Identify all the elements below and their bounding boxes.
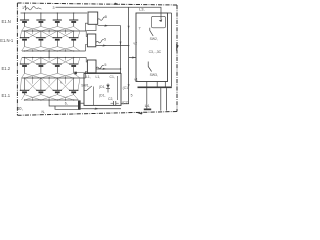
arrowhead down lower	[128, 84, 130, 88]
wire drop A	[160, 88, 162, 111]
wire drop B	[166, 88, 168, 111]
wire mesh row N-1 bottom	[22, 47, 25, 51]
junction	[73, 50, 74, 51]
wire mesh row 1 top	[20, 78, 21, 90]
wire lead cell N.4	[73, 13, 75, 20]
squiggle 5a	[97, 17, 105, 20]
wire mesh row N bottom	[22, 27, 25, 32]
svg-text:(D1,: (D1,	[99, 85, 105, 89]
wire link bus C to bus D1	[48, 51, 50, 58]
junction	[24, 99, 25, 100]
junction	[40, 99, 41, 100]
bus wire D1 (module 2 top)	[22, 57, 86, 59]
svg-text:(D1,: (D1,	[99, 94, 105, 98]
svg-text:5: 5	[131, 94, 133, 98]
wire rail 2	[55, 106, 78, 109]
svg-text:C1,: C1,	[110, 75, 115, 79]
branch into right unit	[129, 57, 136, 59]
battery cell 1.1 plates	[20, 89, 29, 91]
thick bus below right unit	[138, 86, 172, 88]
wire stub bus B to box N	[86, 23, 89, 31]
wire mesh row 2 top	[20, 58, 21, 65]
arrowhead down upper	[128, 26, 130, 30]
svg-text:E1.N-1: E1.N-1	[0, 38, 14, 43]
junction	[24, 30, 25, 31]
wire lead cell N.1	[24, 13, 26, 20]
arrow into inner unit	[159, 19, 162, 22]
wire mesh row 1 bottom	[22, 95, 25, 100]
svg-text:SW1,: SW1,	[81, 83, 89, 87]
svg-text:C3,..,3C: C3,..,3C	[149, 50, 162, 54]
wire stub bus B to box N-1	[86, 31, 87, 37]
bus wire A (module N top)	[21, 12, 88, 14]
battery cell N-1.2 plates	[36, 37, 45, 39]
inner rounded box	[152, 16, 166, 28]
wire out 3	[96, 68, 121, 70]
wire lead cell 1.2 lower	[40, 92, 42, 94]
svg-text:L4,: L4,	[145, 103, 151, 108]
wire lead cell 2.1	[24, 58, 26, 65]
wire lead cell N-1.4	[73, 31, 75, 38]
wire stub bus B under box N	[86, 25, 96, 31]
wire lead cell N.1 lower	[24, 22, 26, 27]
junction	[40, 77, 41, 78]
battery cell 2.1 plates	[20, 63, 29, 65]
svg-text:v1: v1	[134, 77, 138, 81]
arrowhead on rail	[95, 108, 100, 110]
battery cell 2.3 plates	[53, 63, 62, 65]
svg-text:v2: v2	[133, 41, 137, 45]
arrowhead down mid	[120, 42, 122, 46]
dashed boundary box	[17, 3, 177, 115]
svg-text:3: 3	[53, 6, 55, 10]
battery cell N.2 plates	[36, 19, 45, 21]
wire inner vertical	[117, 76, 119, 100]
bus wire E (negative)	[25, 99, 79, 101]
junction	[73, 12, 74, 13]
junction	[24, 57, 25, 58]
junction	[57, 77, 58, 78]
arrowhead on wire out 3	[103, 68, 107, 70]
wire lead cell N-1.4 lower	[73, 40, 75, 47]
junction	[48, 57, 49, 58]
squiggle 5c	[96, 65, 104, 68]
arrow on bottom border	[137, 113, 144, 115]
wire lead cell 1.3	[56, 78, 58, 90]
wire lead cell N-1.3	[56, 31, 58, 38]
wire lead cell 2.2	[40, 58, 42, 65]
SW2 blade	[150, 28, 153, 36]
svg-text:L1,: L1,	[86, 75, 91, 79]
drops box to thick bus	[147, 82, 166, 88]
wire lead cell N.4 lower	[73, 22, 75, 27]
junction	[73, 99, 74, 100]
battery cell 1.4 plates	[69, 89, 78, 91]
capacitor C2 in box	[114, 101, 116, 105]
wire SW1 to box bottom	[92, 87, 94, 106]
svg-text:E1.2: E1.2	[2, 66, 11, 71]
junction block	[74, 72, 77, 75]
svg-text:40,: 40,	[17, 106, 23, 111]
junction	[40, 57, 41, 58]
svg-text:6,: 6,	[65, 101, 68, 105]
monitor box module N	[88, 12, 98, 24]
L4 inductor mark	[144, 109, 151, 111]
battery cell N-1.3 plates	[53, 37, 62, 39]
wire stub bus C to box N-1	[86, 45, 88, 52]
svg-text:E1.1: E1.1	[2, 93, 11, 98]
monitor box module 2	[87, 60, 96, 73]
battery cell 1.3 plates	[53, 89, 62, 91]
top wire to right unit	[56, 7, 162, 19]
wire lead cell 2.4 lower	[73, 66, 75, 73]
diode D1	[106, 84, 110, 93]
battery cell N.3 plates	[53, 19, 62, 21]
svg-text:L3,: L3,	[139, 6, 145, 11]
wire bar to control box	[81, 102, 84, 104]
bottom control box	[84, 74, 121, 106]
svg-text:L1,: L1,	[96, 75, 101, 79]
wire lead cell 1.1	[24, 78, 26, 90]
SW1 blade	[84, 86, 92, 91]
wire stub bus D to box 2	[86, 72, 88, 79]
svg-text:SW3,: SW3,	[150, 73, 158, 77]
arrow on top border	[114, 3, 121, 5]
battery cell N.1 plates	[20, 19, 29, 21]
squiggle 5b	[96, 40, 104, 43]
wire rail 1	[49, 100, 78, 106]
svg-text:SW2,: SW2,	[150, 37, 158, 41]
battery rows (generated)	[20, 12, 87, 100]
arrow on right border	[176, 44, 178, 51]
svg-text:5: 5	[104, 37, 106, 41]
wire lead cell N-1.3 lower	[56, 40, 58, 47]
wire lead cell 1.2	[40, 78, 42, 90]
wire out 2	[96, 45, 129, 47]
junction	[40, 12, 41, 13]
wire lead cell N.3 lower	[56, 22, 58, 27]
svg-text:5: 5	[104, 63, 106, 67]
wire out 1	[121, 7, 129, 104]
wire stub bus D1 to box 2	[86, 58, 87, 63]
SW3 blade	[148, 62, 151, 72]
capacitor C2 leads	[111, 102, 119, 104]
svg-text:N,: N,	[42, 110, 45, 114]
wire lead cell N-1.1	[24, 31, 26, 38]
wire lead cell 1.4	[73, 78, 75, 90]
svg-text:(C1,: (C1,	[123, 86, 129, 90]
battery cell 2.2 plates	[36, 63, 45, 65]
junction	[73, 77, 74, 78]
junction	[24, 50, 25, 51]
battery cell 1.2 plates	[36, 89, 45, 91]
texts	[0, 19, 14, 98]
wire mesh row 2 bottom	[22, 73, 25, 78]
wire lead cell 1.4 lower	[73, 92, 75, 94]
wire lead cell N-1.2	[40, 31, 42, 38]
monitor box module N-1	[87, 34, 95, 47]
wire lead cell N-1.2 lower	[40, 40, 42, 47]
battery cell N.4 plates	[69, 19, 78, 21]
svg-text:C2,: C2,	[108, 97, 113, 101]
battery cell 2.4 plates	[69, 63, 78, 65]
junction	[73, 57, 74, 58]
wire drop to L4	[146, 87, 148, 108]
arrowhead on wire out 1	[104, 25, 108, 27]
control box top inner line	[76, 72, 122, 74]
right rail	[168, 13, 172, 86]
battery cell N-1.1 plates	[20, 37, 29, 39]
junction	[57, 30, 58, 31]
junction	[57, 57, 58, 58]
svg-text:(C2,: (C2,	[122, 100, 128, 104]
terminal bar	[78, 100, 81, 109]
wire lead cell 2.3	[56, 58, 58, 65]
wire lead cell N.2 lower	[40, 22, 42, 27]
wire lead cell N.3	[56, 13, 58, 20]
squiggle lead 2	[26, 7, 42, 10]
wire lead cell N-1.1 lower	[24, 40, 26, 47]
wire lead cell 2.2 lower	[40, 66, 42, 73]
junction	[24, 77, 25, 78]
arrowhead on wire out 2	[103, 45, 107, 47]
wire rail under control box	[81, 108, 121, 110]
wire lead cell 1.1 lower	[24, 92, 26, 94]
junction	[40, 30, 41, 31]
wire lead cell 1.3 lower	[56, 92, 58, 94]
battery cell N-1.4 plates	[69, 37, 78, 39]
bus wire D	[22, 77, 86, 79]
svg-text:1: 1	[22, 6, 24, 10]
junction	[57, 12, 58, 13]
svg-text:E1.N: E1.N	[2, 19, 11, 24]
junction	[40, 50, 41, 51]
svg-text:N,: N,	[60, 80, 63, 84]
junction	[48, 50, 49, 51]
wire lead cell 2.1 lower	[24, 66, 26, 73]
bus wire C	[22, 50, 86, 52]
wire lead cell N.2	[40, 13, 42, 20]
wire mesh row N-1 top	[20, 31, 21, 38]
junction	[57, 50, 58, 51]
svg-text:5: 5	[105, 15, 107, 19]
arrowhead into right unit	[132, 57, 136, 59]
wire lead cell 2.4	[73, 58, 75, 65]
bus wire B	[22, 30, 86, 32]
junction	[57, 99, 58, 100]
second wire from box1	[98, 26, 121, 74]
junction	[24, 12, 25, 13]
right unit box	[136, 13, 168, 82]
junction	[73, 30, 74, 31]
wire lead cell 2.3 lower	[56, 66, 58, 73]
